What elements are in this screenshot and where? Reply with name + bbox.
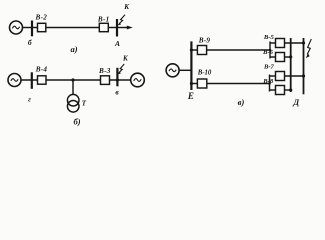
junction on bus 1 — [289, 55, 292, 58]
wire V-8 to bus 1 — [285, 89, 291, 91]
wire fork to V-5 — [270, 42, 276, 44]
bus A (node А) — [116, 19, 118, 37]
bus 2 vertical (bus Д) — [303, 38, 305, 94]
svg-text:б: б — [28, 38, 32, 47]
svg-text:г: г — [28, 95, 31, 104]
junction on bus 2 — [302, 41, 305, 44]
fault lightning on bus D — [306, 39, 311, 58]
wire B-3 to bus v — [110, 79, 132, 81]
generator G4 — [166, 64, 179, 77]
wire V-7 to bus 2 — [285, 75, 306, 77]
junction on bus 2 — [302, 74, 305, 77]
svg-text:В-5: В-5 — [263, 34, 275, 41]
bus E (node Е) — [190, 41, 192, 90]
junction bus E bottom — [190, 82, 193, 85]
wire fork to V-7 — [270, 75, 276, 77]
junction T tap — [71, 78, 74, 81]
wire G4 to bus E — [179, 69, 191, 71]
breaker V-1 — [99, 23, 108, 31]
svg-text:б): б) — [73, 116, 80, 126]
breaker V-5 — [276, 39, 285, 48]
wire fork to V-8 — [270, 89, 276, 91]
junction on bus 1 — [289, 88, 292, 91]
svg-text:Т: Т — [82, 99, 87, 107]
transformer T — [67, 80, 79, 112]
svg-text:а): а) — [70, 44, 77, 54]
svg-text:В-2: В-2 — [35, 14, 48, 22]
svg-text:В-4: В-4 — [35, 66, 48, 74]
junction on bus v — [116, 78, 119, 81]
breaker V-2 — [38, 23, 46, 31]
wire G1 to B-2 — [22, 27, 37, 29]
wire bus E to V-9 — [191, 49, 197, 51]
fault K lightning — [117, 15, 125, 26]
junction top fork — [269, 49, 272, 52]
outgoing line arrow — [117, 26, 133, 30]
svg-text:В-10: В-10 — [197, 69, 212, 76]
bus g (node г) — [31, 72, 33, 89]
breaker V-10 — [197, 79, 206, 88]
fault K lightning — [117, 64, 124, 75]
breaker V-4 — [38, 76, 47, 84]
breaker V-6 — [276, 53, 285, 62]
wire V-5 to bus 2 — [285, 42, 306, 44]
wire B-4 to B-3 — [46, 79, 101, 81]
breaker V-3 — [101, 76, 110, 85]
svg-text:В-7: В-7 — [263, 64, 275, 71]
bottom fork vertical — [269, 75, 271, 92]
bus v (node в) — [116, 68, 118, 87]
wire B-1 to bus A — [108, 27, 117, 29]
svg-text:в): в) — [238, 97, 245, 107]
svg-text:В-9: В-9 — [198, 36, 211, 44]
breaker V-9 — [197, 46, 206, 55]
svg-text:В-3: В-3 — [98, 67, 111, 75]
svg-text:Е: Е — [187, 91, 194, 101]
generator G3 — [131, 73, 145, 87]
breaker V-8 — [276, 86, 285, 95]
wire fork to V-6 — [270, 56, 276, 58]
wire bus E to V-10 — [191, 83, 197, 85]
svg-text:Д: Д — [292, 97, 300, 107]
top fork vertical — [269, 42, 271, 59]
wire B-2 to B-1 — [46, 27, 100, 29]
wire V-10 to bottom fork — [207, 83, 270, 85]
breaker V-7 — [276, 72, 285, 81]
wire V-9 to top fork — [207, 49, 270, 51]
generator G1 — [10, 21, 23, 34]
wire V-6 to bus 1 — [285, 56, 291, 58]
svg-text:В-8: В-8 — [262, 78, 274, 85]
generator G2 — [8, 74, 21, 87]
svg-text:В-1: В-1 — [97, 16, 110, 24]
junction bottom fork — [268, 82, 271, 85]
svg-text:А: А — [114, 39, 120, 48]
junction bus E top — [190, 48, 193, 51]
wire G2 to B-4 — [21, 79, 38, 81]
bus 1 vertical — [290, 38, 292, 92]
svg-text:В-6: В-6 — [262, 49, 274, 56]
bus b (node б) — [31, 21, 33, 37]
